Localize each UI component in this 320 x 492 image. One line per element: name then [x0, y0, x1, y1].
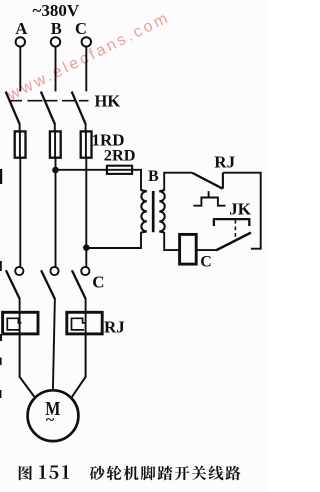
wire heater C to motor: [72, 334, 86, 397]
svg-text:RJ: RJ: [214, 152, 235, 171]
svg-text:B: B: [51, 19, 62, 38]
terminal A: [15, 19, 27, 47]
wire pole C contact to heater RJ: [85, 298, 87, 334]
svg-text:B: B: [148, 168, 159, 185]
svg-text:HK: HK: [95, 91, 121, 110]
wire phase B from terminal to switch HK: [55, 47, 57, 91]
switch HK blade, pole A: [6, 92, 20, 124]
fuse 1RD pole C: [81, 131, 92, 157]
wire through fuse 1RD pole B: [54, 131, 56, 158]
svg-text:JK: JK: [229, 200, 252, 219]
thermal relay RJ NC contact fixed hook: [222, 173, 224, 189]
left edge scan marks: [0, 169, 2, 398]
transformer B primary winding: [141, 190, 147, 232]
thermal relay RJ actuator bump symbol: [193, 198, 225, 206]
thermal relay RJ heater element, phase A: [3, 312, 38, 334]
switch HK mechanical link (dashed): [10, 100, 89, 102]
svg-text:~380V: ~380V: [33, 1, 80, 20]
svg-text:~: ~: [46, 412, 55, 429]
wire coil C to JK contact: [196, 249, 216, 251]
caption 图: [19, 466, 32, 481]
svg-text:C: C: [75, 19, 87, 38]
terminal C: [75, 19, 91, 47]
fuse 1RD pole B: [50, 131, 61, 157]
fuse 1RD pole A: [15, 131, 26, 157]
wire phase C fuse to contactor: [85, 158, 87, 268]
contactor C main contact pole B: [41, 267, 59, 299]
wire through fuse 1RD pole C: [85, 131, 87, 158]
svg-text:A: A: [15, 19, 27, 38]
switch HK blade, pole B: [41, 92, 55, 124]
fuse 2RD: [107, 166, 132, 174]
transformer B secondary winding: [159, 190, 164, 232]
wire phase B junction to transformer primary (through 2RD): [56, 170, 142, 191]
wire pole C blade to fuse 1RD: [85, 123, 87, 132]
terminal B: [51, 19, 62, 47]
wire pole B contact to motor: [53, 298, 55, 391]
wire phase C from terminal to switch HK: [85, 47, 87, 91]
wire through fuse 1RD pole A: [19, 131, 21, 158]
wire phase B fuse to contactor: [55, 158, 57, 268]
contactor C main contact pole A: [6, 267, 23, 299]
wire transformer secondary bottom to coil C: [164, 232, 179, 250]
contactor coil C: [180, 234, 197, 264]
wire phase A fuse to contactor: [19, 158, 21, 268]
caption 砂轮机脚踏开关线路: [90, 466, 241, 481]
wire JK contact to right corner: [251, 248, 262, 250]
motor M: [28, 390, 79, 441]
foot pedal JK operator bracket: [214, 219, 249, 226]
svg-text:2RD: 2RD: [104, 145, 136, 164]
wire pole B blade to fuse 1RD: [54, 123, 56, 132]
contactor C main contact pole C: [72, 267, 90, 299]
wire phase A from terminal to switch HK: [19, 47, 21, 91]
thermal relay RJ actuator stem: [208, 191, 210, 197]
caption 151: [39, 465, 69, 479]
svg-text:RJ: RJ: [104, 318, 125, 337]
wire contact RJ to right side of loop: [223, 173, 261, 249]
wire pole A contact to heater RJ: [19, 298, 21, 334]
wire pole A blade to fuse 1RD: [19, 123, 21, 132]
transformer B core: [152, 191, 155, 232]
svg-text:C: C: [200, 253, 212, 270]
wire heater A to motor: [20, 334, 35, 397]
thermal relay RJ heater element, phase C: [67, 312, 102, 334]
foot switch JK contact blade: [216, 233, 251, 251]
thermal relay RJ NC contact blade: [192, 173, 222, 189]
wire transformer secondary top to contact RJ: [164, 173, 192, 191]
foot pedal JK linkage (dashed): [234, 220, 236, 241]
node junction on phase B: [52, 167, 59, 174]
svg-text:C: C: [92, 272, 104, 291]
node junction on phase C: [83, 244, 90, 251]
switch HK blade, pole C: [72, 92, 86, 124]
wire transformer primary bottom to phase C junction: [86, 232, 141, 248]
